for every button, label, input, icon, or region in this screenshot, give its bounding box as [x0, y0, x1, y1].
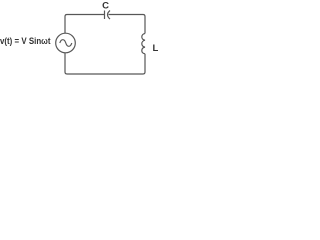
capacitor C1 left plate: [104, 11, 106, 20]
inductor L1 coil: [142, 34, 145, 54]
wire inductor bottom to bottom-right corner to source bottom: [65, 53, 145, 74]
AC source sine symbol: [60, 40, 72, 47]
wire top-left to capacitor left plate: [65, 15, 104, 34]
capacitor C1 right curved plate: [108, 11, 111, 20]
AC source V1 circle: [56, 33, 76, 53]
wire capacitor to top-right corner down to inductor: [109, 15, 146, 34]
svg-text:C: C: [102, 1, 109, 12]
svg-text:v(t) = V Sinωt: v(t) = V Sinωt: [0, 36, 51, 47]
svg-text:L: L: [153, 43, 159, 54]
